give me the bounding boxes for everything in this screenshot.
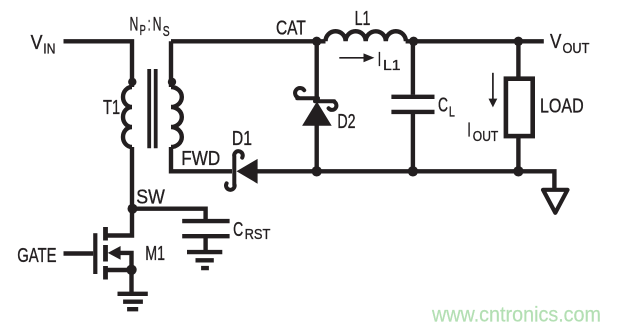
svg-text:N: N [153,14,162,36]
diode D2 curly cathode bar [295,88,336,110]
svg-text:M1: M1 [145,243,165,265]
wire CRST bottom stub [203,238,207,250]
junction dot L1 right [409,37,418,46]
capacitor CRST plates [182,221,229,236]
node CAT junction dot [312,37,321,46]
junction dot M1 source [126,265,136,275]
svg-text:L: L [449,103,455,120]
capacitor CL plates [391,97,434,112]
label CL [438,94,455,120]
svg-text:OUT: OUT [473,128,499,145]
svg-text:IN: IN [43,41,55,58]
ground triangle bottom right [543,190,568,213]
svg-text:FWD: FWD [181,148,220,170]
wire top rail secondary to L1 [171,41,326,87]
svg-text:N: N [130,14,139,36]
label VIN [31,32,56,57]
transformer T1 core bars [149,69,156,148]
wire transformer primary bottom to SW to M1 drain [106,147,133,236]
transformer T1 secondary phase dot [168,78,176,86]
label CRST [233,219,270,243]
junction dot LOAD bottom [513,166,523,176]
wire M1 source horizontal [106,268,132,272]
node VOUT junction dot [514,37,523,46]
arrow IL1 [339,53,374,62]
wire CL top [411,41,415,95]
transformer T1 primary phase dot [128,78,136,86]
svg-text:S: S [163,23,170,40]
svg-text:D2: D2 [337,111,355,133]
diode D1 triangle [237,159,258,184]
wire D2 top [315,41,319,102]
svg-text:RST: RST [245,226,271,243]
ground below M1 [118,294,148,309]
transformer T1 secondary winding [171,87,182,147]
diode D2 triangle [302,102,332,126]
label NP:NS [130,14,170,40]
svg-text:P: P [140,22,146,39]
svg-text:SW: SW [136,187,165,209]
wire GATE to M1 gate [64,251,94,255]
label IOUT [467,120,498,145]
wire D2 bottom [315,124,319,171]
wire transformer secondary bottom to FWD rail [171,147,232,171]
LOAD resistor box [506,79,533,136]
wire SW to CRST [133,209,206,220]
wire bottom rail FWD to ground corner [256,171,554,188]
svg-text:T1: T1 [103,97,120,119]
svg-text:C: C [233,219,243,241]
svg-text:CAT: CAT [276,18,306,40]
inductor L1 [326,31,406,41]
label VOUT [550,31,589,57]
svg-text:L1: L1 [383,57,401,74]
wire M1 source to ground [129,270,133,292]
ground below CRST [187,252,222,268]
svg-text:OUT: OUT [563,40,590,57]
svg-text::: : [148,14,151,36]
wire CL bottom [411,114,415,171]
wire VIN to transformer primary top [64,41,133,87]
wire M1 body arrow tail to source [120,253,132,270]
svg-text:V: V [31,32,43,54]
MOSFET M1 channel segments [103,227,108,280]
svg-text:L1: L1 [355,8,371,30]
MOSFET M1 body arrow [108,246,121,260]
diode D1 curly cathode bar [226,151,243,190]
wire LOAD bottom [516,136,520,171]
junction dot CL bottom [408,166,418,176]
svg-text:I: I [467,120,470,142]
transformer T1 primary winding [123,87,132,147]
arrow IOUT [489,73,498,108]
svg-text:I: I [378,49,381,71]
svg-text:V: V [550,31,562,53]
wire top rail L1 to VOUT [406,39,544,43]
wire LOAD top [516,41,520,79]
svg-text:C: C [438,94,448,116]
junction dot D2 bottom [312,166,322,176]
svg-text:D1: D1 [232,128,252,150]
label IL1 [378,49,401,74]
svg-text:LOAD: LOAD [540,95,584,117]
svg-text:www.cntronics.com: www.cntronics.com [431,303,601,327]
MOSFET M1 gate bar [93,233,97,274]
node SW junction dot [128,204,138,214]
svg-text:GATE: GATE [17,245,56,267]
